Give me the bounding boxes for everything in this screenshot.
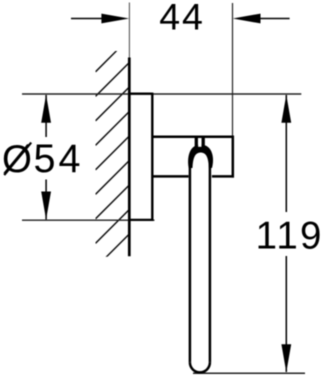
- arrowhead 44 right: [233, 14, 261, 24]
- arrowhead O54 up: [41, 95, 51, 123]
- arrowhead O54 down: [41, 192, 51, 220]
- svg-text:54: 54: [34, 137, 84, 181]
- wall hatching: [96, 38, 130, 268]
- ring rod right outline: [209, 157, 212, 362]
- wall flange right edge: [151, 93, 153, 221]
- svg-text:119: 119: [256, 215, 322, 258]
- dimension line O54 upper segment: [45, 95, 47, 137]
- extension line 119 bottom: [193, 372, 305, 374]
- wall surface line: [128, 58, 131, 257]
- ring pivot hub (thick arch): [188, 145, 213, 168]
- extension line: holder front (44 dim, right): [232, 3, 234, 137]
- dimension line 119 upper segment: [285, 95, 287, 212]
- dimension line 44 right tail: [260, 18, 290, 20]
- arrowhead 44 left: [101, 14, 129, 24]
- ring bottom U-bend: [190, 362, 210, 372]
- holder body bottom edge left segment: [152, 175, 188, 178]
- svg-text:44: 44: [159, 0, 204, 38]
- ring stem right: [202, 136, 205, 146]
- ring stem left: [195, 136, 198, 146]
- holder body top edge: [152, 135, 234, 138]
- extension line: wall surface above (44 dim, left): [128, 3, 130, 58]
- extension line top (O54 top / 119 top): [22, 93, 301, 95]
- holder body bottom edge right segment: [212, 175, 234, 178]
- dimension line O54 lower segment: [45, 180, 47, 220]
- extension line O54 bottom: [22, 219, 155, 221]
- dimension line 119 lower segment: [285, 256, 287, 372]
- ring stem slit (white gap into hub): [198, 138, 201, 147]
- arrowhead 119 down: [281, 344, 291, 372]
- holder body front edge: [232, 136, 235, 178]
- dimension line 44 left tail: [71, 18, 104, 20]
- ring rod left outline: [189, 157, 192, 362]
- wall flange (escutcheon) top edge: [128, 93, 152, 95]
- arrowhead 119 up: [281, 95, 291, 123]
- wall flange bottom edge: [128, 219, 152, 221]
